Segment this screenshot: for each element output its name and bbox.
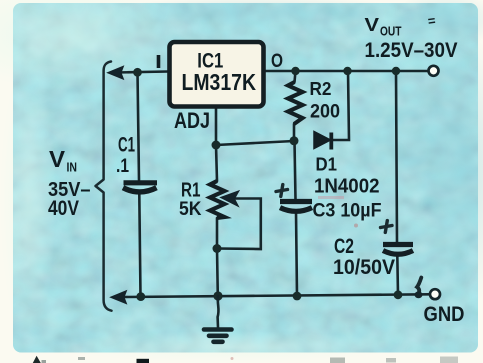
- wire: top bus right segment (IC output pin to VOUT terminal): [264, 70, 428, 73]
- pin label I (input): [155, 52, 162, 72]
- node: bottom bus / ground: [213, 291, 222, 300]
- ground symbol: [204, 296, 232, 342]
- node: D1 anode / R2 / C3: [290, 136, 299, 145]
- pin label ADJ: [174, 108, 210, 133]
- svg-text:O: O: [271, 51, 283, 72]
- label VIN: [49, 146, 77, 175]
- label D1: [316, 154, 338, 175]
- node: bottom bus / C2: [394, 290, 403, 299]
- wire: R2 top lead from top bus: [295, 71, 296, 82]
- svg-text:V: V: [365, 14, 380, 35]
- wiper arrow of R1: [221, 191, 240, 207]
- capacitor C1: [123, 183, 157, 192]
- wire: C1 vertical branch: [138, 73, 141, 297]
- node: bottom bus / C3: [293, 292, 302, 301]
- node: top bus / C2: [392, 67, 400, 75]
- plus sign of C3: [276, 185, 288, 197]
- svg-text:R2: R2: [310, 78, 332, 99]
- svg-text:GND: GND: [424, 302, 465, 326]
- svg-text:V: V: [49, 146, 66, 172]
- label GND: [424, 302, 465, 326]
- wire: R1 top lead: [216, 145, 217, 181]
- wire: bottom bus (arrow to GND terminal): [125, 294, 430, 297]
- node: R1 bottom / wiper: [213, 244, 222, 253]
- tick mark near GND terminal: [415, 278, 423, 299]
- label R1: [181, 180, 201, 202]
- label IC1: [197, 49, 223, 72]
- wire: adj node to D1 anode (horizontal): [216, 141, 294, 145]
- node: top bus / D1 cathode: [343, 67, 351, 75]
- svg-text:ADJ: ADJ: [174, 108, 210, 133]
- diode D1: [314, 132, 331, 150]
- svg-text:.1: .1: [116, 156, 129, 177]
- resistor R1 (zigzag): [210, 181, 225, 218]
- label C3 10uF: [313, 200, 382, 222]
- svg-text:1N4002: 1N4002: [314, 176, 380, 198]
- wire: top bus left segment (arrow to IC input pin): [116, 72, 168, 73]
- capacitor C2: [383, 245, 413, 255]
- svg-text:5K: 5K: [179, 198, 202, 220]
- node: junction dots: [133, 67, 402, 301]
- svg-text:IN: IN: [67, 160, 78, 175]
- svg-text:LM317K: LM317K: [182, 69, 257, 95]
- wire: D1 cathode up to top bus: [332, 71, 349, 140]
- node: ADJ junction: [212, 141, 221, 150]
- plus sign of C2: [381, 221, 393, 233]
- terminal: VOUT output circle: [429, 66, 439, 76]
- wire: R1 wiper loop: [217, 199, 261, 250]
- label C2: [334, 235, 354, 258]
- cropped caption fragments below figure: [33, 356, 458, 363]
- wire: R1 bottom lead down to bottom bus: [216, 218, 219, 296]
- label 35V-: [48, 179, 91, 201]
- capacitor C3: [280, 202, 312, 212]
- op-amp / regulator IC1 box: [170, 42, 264, 107]
- label 5K: [179, 198, 202, 220]
- svg-text:1.25V–30V: 1.25V–30V: [365, 39, 458, 62]
- label C1: [118, 134, 135, 157]
- svg-text:C2: C2: [334, 235, 354, 258]
- arrow: input bottom-left pointing left: [111, 291, 127, 304]
- resistor R2 (zigzag): [288, 82, 303, 124]
- label 10/50V: [333, 256, 395, 279]
- label 1.25V-30V: [365, 39, 458, 62]
- label VOUT =: [365, 13, 437, 39]
- svg-text:I: I: [155, 52, 162, 72]
- label .1: [116, 156, 129, 177]
- svg-text:C3 10µF: C3 10µF: [313, 200, 382, 222]
- svg-text:40V: 40V: [48, 196, 80, 220]
- svg-text:C1: C1: [118, 134, 135, 157]
- label 40V: [48, 196, 80, 220]
- label 200: [310, 101, 340, 123]
- wire: ADJ pin down to adj node: [215, 109, 218, 146]
- node: top bus / R2: [291, 67, 299, 75]
- svg-text:200: 200: [310, 101, 340, 123]
- pin label O (output): [271, 51, 283, 72]
- arrow: input top-left pointing left: [108, 66, 124, 79]
- wire: R2 bottom lead to D1 anode node: [293, 124, 296, 141]
- svg-text:D1: D1: [316, 154, 338, 175]
- svg-text:OUT: OUT: [380, 24, 402, 39]
- wire: C2 vertical branch: [396, 71, 398, 295]
- svg-text:10/50V: 10/50V: [333, 256, 395, 279]
- brace: VIN input curly bracket: [96, 62, 112, 311]
- node: bottom bus / C1: [136, 292, 145, 301]
- label 1N4002: [314, 176, 380, 198]
- label LM317K: [182, 69, 257, 95]
- faint print artifacts: [318, 196, 358, 228]
- label R2: [310, 78, 332, 99]
- node: top bus / C1 top: [133, 68, 142, 77]
- wire: C3 branch below D1 anode node: [295, 141, 298, 296]
- terminal: GND circle: [430, 289, 440, 299]
